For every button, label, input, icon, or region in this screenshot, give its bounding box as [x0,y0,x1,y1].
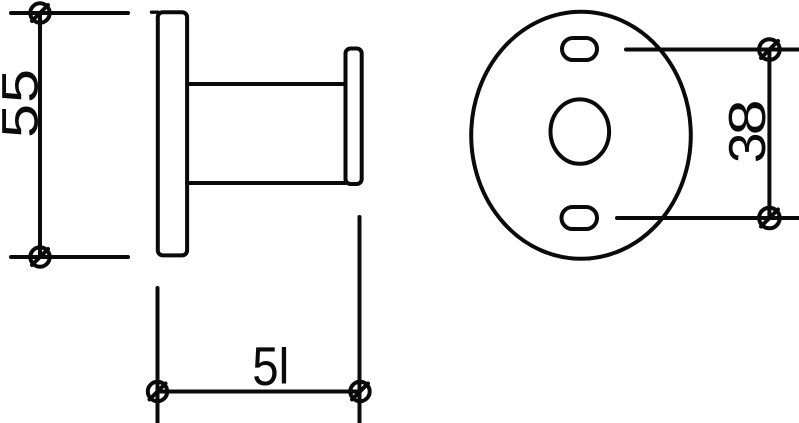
top screw slot [562,38,597,60]
plate top edge overshoot tick [152,10,159,13]
extension line bottom (55 dim) [11,255,128,259]
wall plate (side view) [158,12,187,255]
dimension line 38 [767,50,771,219]
stem top line [187,82,346,86]
leader line top (38 dim) [626,48,799,52]
terminator circle bottom (55) [30,247,49,266]
stem bottom line [187,181,346,185]
center hole [551,99,610,163]
extension line left (51 dim) [156,288,160,423]
terminator circle top (38) [759,39,780,60]
svg-text:3: 3 [718,132,776,163]
bottom screw slot [562,207,598,229]
dimension text 51 [252,336,286,397]
dimension line 51 [158,390,361,394]
mounting plate ellipse (front view) [471,12,691,259]
terminator circle top (55) [30,3,49,22]
extension line top (55 dim) [11,11,128,15]
svg-text:55: 55 [0,68,48,138]
leader line bottom (38 dim) [617,216,799,220]
flange (hook end plate, side view) [346,49,362,185]
terminator circle bottom (38) [759,208,780,229]
svg-text:8: 8 [719,99,776,135]
svg-text:5: 5 [252,336,278,397]
extension line right (51 dim) [358,217,362,423]
dimension line 55 [38,13,42,257]
dimension text 38 [718,99,776,163]
terminator circle left (51) [148,382,167,401]
terminator circle right (51) [350,382,369,401]
